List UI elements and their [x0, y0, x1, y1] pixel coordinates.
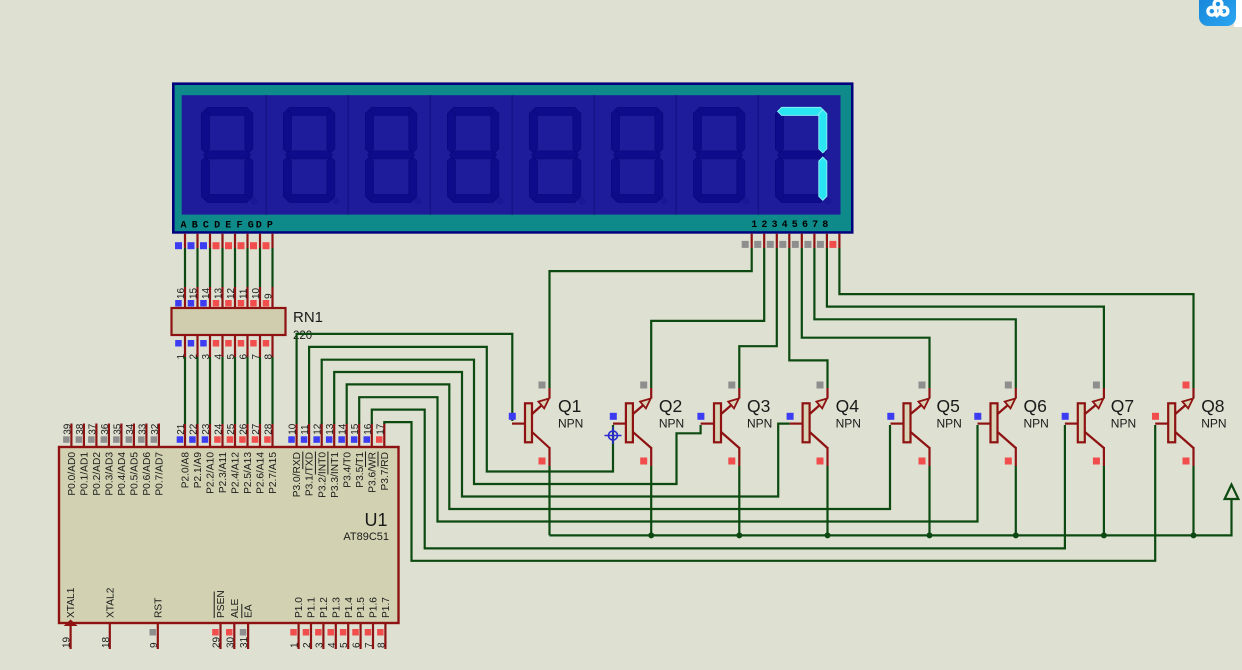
- svg-text:16: 16: [363, 423, 374, 435]
- wire P3.6 -> Q7 base: [372, 410, 1065, 549]
- logic-state squares on U1 top pins: [63, 436, 382, 443]
- svg-text:XTAL1: XTAL1: [66, 587, 77, 618]
- logic-state squares on Q4 pins: [787, 382, 824, 465]
- svg-text:NPN: NPN: [937, 417, 962, 431]
- svg-text:ALE: ALE: [230, 599, 241, 618]
- svg-text:P1.2: P1.2: [319, 597, 330, 618]
- svg-text:14: 14: [201, 287, 212, 299]
- svg-text:37: 37: [87, 423, 98, 435]
- display segment pins A-G,DP (stubs): [185, 234, 273, 248]
- svg-text:P3.2/INT0: P3.2/INT0: [317, 452, 328, 498]
- wire P3.3 -> Q4 base: [334, 372, 790, 497]
- svg-text:P2.2/A10: P2.2/A10: [206, 452, 217, 494]
- svg-text:16: 16: [176, 287, 187, 299]
- wire display digit pin 4 -> Q4 emitter: [789, 248, 827, 388]
- svg-text:9: 9: [264, 293, 275, 299]
- svg-text:P3.5/T1: P3.5/T1: [355, 452, 366, 488]
- svg-text:34: 34: [125, 423, 136, 435]
- svg-text:P2.5/A13: P2.5/A13: [243, 452, 254, 494]
- svg-text:P3.7/RD: P3.7/RD: [380, 452, 391, 491]
- microcontroller U1 body: [59, 447, 399, 623]
- svg-text:P2.1/A9: P2.1/A9: [193, 452, 204, 489]
- svg-text:P0.5/AD5: P0.5/AD5: [130, 452, 141, 496]
- svg-text:P2.0/A8: P2.0/A8: [181, 452, 192, 489]
- svg-text:12: 12: [313, 423, 324, 435]
- svg-text:23: 23: [201, 423, 212, 435]
- svg-text:Q1: Q1: [558, 396, 581, 416]
- wire collector bus (Q1..Q8 collectors): [550, 466, 1232, 535]
- display digit cell 7 (unlit figure-8): [693, 107, 749, 204]
- logic-state squares on Q1 pins: [509, 382, 546, 465]
- svg-text:8: 8: [376, 642, 387, 648]
- svg-text:17: 17: [375, 423, 386, 435]
- svg-text:27: 27: [251, 423, 262, 435]
- svg-text:5: 5: [339, 642, 350, 648]
- svg-text:P3.0/RXD: P3.0/RXD: [292, 452, 303, 497]
- svg-text:6: 6: [352, 642, 363, 648]
- svg-text:EA: EA: [244, 604, 255, 618]
- svg-text:P3.3/INT1: P3.3/INT1: [330, 452, 341, 498]
- wire P3.4 -> Q5 base: [347, 384, 890, 509]
- svg-text:P2.7/A15: P2.7/A15: [268, 452, 279, 494]
- svg-text:NPN: NPN: [558, 417, 583, 431]
- svg-text:10: 10: [251, 287, 262, 299]
- lit digit 7 (segments A B C) on cell 8: [778, 107, 827, 200]
- svg-text:29: 29: [212, 636, 223, 648]
- svg-text:NPN: NPN: [1111, 417, 1136, 431]
- svg-text:RN1: RN1: [293, 309, 323, 326]
- junction dots on collector bus: [648, 532, 1196, 538]
- svg-text:P1.3: P1.3: [331, 597, 342, 618]
- logic-state squares on RN1 bottom pins: [175, 340, 269, 347]
- svg-text:ABCDEFG: ABCDEFG: [181, 220, 259, 231]
- transistor Q2 (NPN): [613, 388, 651, 466]
- svg-text:2: 2: [302, 642, 313, 648]
- svg-text:P1.1: P1.1: [307, 597, 318, 618]
- svg-text:31: 31: [239, 636, 250, 648]
- U1 top pin name labels: [67, 452, 391, 498]
- svg-text:AT89C51: AT89C51: [343, 531, 389, 543]
- svg-text:18: 18: [101, 636, 112, 648]
- svg-text:NPN: NPN: [659, 417, 684, 431]
- svg-text:39: 39: [62, 423, 73, 435]
- origin crosshair marker: [605, 427, 622, 444]
- svg-text:28: 28: [264, 423, 275, 435]
- svg-text:U1: U1: [364, 510, 387, 530]
- RN1 bottom pin numbers 1..8: [176, 354, 275, 360]
- wire P3.2 -> Q3 base: [322, 360, 701, 484]
- svg-text:30: 30: [225, 636, 236, 648]
- svg-text:P0.2/AD2: P0.2/AD2: [92, 452, 103, 496]
- power symbol (up arrow): [1225, 485, 1239, 500]
- svg-text:Q8: Q8: [1201, 396, 1224, 416]
- svg-text:26: 26: [239, 423, 250, 435]
- svg-text:NPN: NPN: [1201, 417, 1226, 431]
- display digit cell 3 (unlit figure-8): [365, 107, 421, 204]
- transistor Q3 (NPN): [701, 388, 740, 466]
- logic-state squares on Q5 pins: [887, 382, 925, 465]
- svg-text:P3.4/T0: P3.4/T0: [342, 452, 353, 488]
- display digit pins 1-8 (stubs): [752, 234, 840, 248]
- svg-text:4: 4: [327, 642, 338, 648]
- svg-text:15: 15: [350, 423, 361, 435]
- wire display digit pin 1 -> Q1 emitter: [550, 248, 752, 388]
- svg-text:12345678: 12345678: [751, 220, 832, 231]
- svg-text:1: 1: [290, 642, 301, 648]
- transistor Q8 (NPN): [1155, 388, 1193, 466]
- svg-text:14: 14: [338, 423, 349, 435]
- svg-text:XTAL2: XTAL2: [105, 587, 116, 618]
- transistor Q5 (NPN): [891, 388, 930, 466]
- svg-text:PSEN: PSEN: [216, 590, 227, 618]
- logic-state squares on Q8 pins: [1152, 382, 1190, 465]
- U1 top pin numbers: [62, 423, 386, 435]
- logic-state squares on Q6 pins: [974, 382, 1012, 465]
- svg-text:11: 11: [300, 424, 311, 435]
- display digit cell 4 (unlit figure-8): [447, 107, 503, 204]
- svg-text:P1.6: P1.6: [369, 597, 380, 618]
- U1 top pin stubs (P0, P2, P3 ports): [71, 424, 384, 448]
- RN1 top pin numbers 16..9: [176, 287, 275, 299]
- wire P3.5 -> Q6 base: [359, 397, 977, 521]
- svg-text:35: 35: [112, 423, 123, 435]
- wire display digit pin 8 -> Q8 emitter: [839, 248, 1193, 388]
- svg-text:P1.4: P1.4: [344, 597, 355, 618]
- wire display digit pin 2 -> Q2 emitter: [651, 248, 764, 388]
- U1 bottom pin stubs: [71, 623, 386, 649]
- svg-text:24: 24: [214, 423, 225, 435]
- transistor Q7 (NPN): [1065, 388, 1104, 466]
- wire P3.7 -> Q8 base: [384, 422, 1155, 561]
- svg-text:Q7: Q7: [1111, 396, 1134, 416]
- svg-text:15: 15: [189, 287, 200, 299]
- display digit cell 2 (unlit figure-8): [283, 107, 339, 204]
- logic-state squares on Q2 pins: [610, 382, 647, 465]
- svg-text:10: 10: [288, 423, 299, 435]
- logic-state squares on RN1 top pins: [175, 300, 269, 307]
- wires RN1 pins 1..8 down to U1 P2.0..P2.7: [185, 357, 273, 424]
- logic-state squares on U1 bottom pins: [150, 629, 384, 636]
- svg-text:P1.7: P1.7: [381, 597, 392, 618]
- U1 bottom pin numbers: [62, 636, 388, 648]
- logic-state squares on Q7 pins: [1062, 382, 1100, 465]
- svg-text:Q3: Q3: [747, 396, 770, 416]
- wire display digit pin 6 -> Q6 emitter: [814, 248, 1015, 388]
- U1 bottom pin name labels: [66, 587, 392, 618]
- svg-text:P1.0: P1.0: [294, 597, 305, 618]
- display digit cell 6 (unlit figure-8): [611, 107, 667, 204]
- svg-text:Q5: Q5: [937, 396, 960, 416]
- svg-text:3: 3: [314, 642, 325, 648]
- svg-text:7: 7: [364, 642, 375, 648]
- svg-text:19: 19: [62, 636, 73, 648]
- svg-text:Q6: Q6: [1024, 396, 1047, 416]
- svg-text:P2.6/A14: P2.6/A14: [256, 452, 267, 494]
- svg-text:P3.1/TXD: P3.1/TXD: [305, 452, 316, 496]
- wire display digit pin 3 -> Q3 emitter: [739, 248, 777, 388]
- transistor Q4 (NPN): [790, 388, 828, 466]
- wire display digit pin 7 -> Q7 emitter: [827, 248, 1104, 388]
- svg-text:12: 12: [226, 287, 237, 299]
- svg-text:P1.5: P1.5: [356, 597, 367, 618]
- svg-text:P0.6/AD6: P0.6/AD6: [142, 452, 153, 496]
- svg-text:9: 9: [149, 642, 160, 648]
- RN1 bottom pins 1..8: [185, 335, 273, 357]
- svg-text:22: 22: [189, 423, 200, 435]
- svg-text:NPN: NPN: [747, 417, 772, 431]
- svg-text:P2.3/A11: P2.3/A11: [218, 452, 229, 493]
- svg-text:21: 21: [176, 423, 187, 435]
- svg-text:25: 25: [226, 423, 237, 435]
- wire P3.1 -> Q2 base: [309, 347, 613, 472]
- display digit cell 5 (unlit figure-8): [529, 107, 585, 204]
- logic-state squares on display digit pins: [742, 241, 837, 248]
- transistor Q1 (NPN): [512, 388, 550, 466]
- resistor network RN1 top pins 16..9: [185, 287, 273, 308]
- display digit cell 1 (unlit figure-8): [201, 107, 257, 204]
- svg-text:13: 13: [214, 287, 225, 299]
- svg-text:36: 36: [100, 423, 111, 435]
- svg-text:32: 32: [150, 423, 161, 435]
- logic-state squares on display segment pins: [175, 242, 270, 249]
- XTAL1 clock input arrow: [64, 620, 78, 627]
- display digit cell 8 (unlit figure-8): [775, 107, 831, 204]
- transistor Q6 (NPN): [978, 388, 1016, 466]
- svg-text:RST: RST: [153, 598, 164, 618]
- svg-text:Q2: Q2: [659, 396, 682, 416]
- svg-text:P0.1/AD1: P0.1/AD1: [80, 452, 91, 496]
- svg-text:13: 13: [325, 423, 336, 435]
- svg-text:P0.3/AD3: P0.3/AD3: [105, 452, 116, 496]
- svg-text:P0.0/AD0: P0.0/AD0: [67, 452, 78, 496]
- logic-state squares on Q3 pins: [697, 382, 735, 465]
- svg-text:38: 38: [75, 423, 86, 435]
- svg-text:NPN: NPN: [836, 417, 861, 431]
- 8-digit 7-segment display DS1: [172, 82, 854, 233]
- wires display segment pins A..DP down to RN1 pins 16..9: [185, 248, 273, 287]
- svg-text:NPN: NPN: [1024, 417, 1049, 431]
- svg-text:33: 33: [137, 423, 148, 435]
- wire P3.0 -> Q1 base: [297, 334, 513, 424]
- svg-text:P0.4/AD4: P0.4/AD4: [117, 452, 128, 496]
- svg-text:P2.4/A12: P2.4/A12: [231, 452, 242, 494]
- wire display digit pin 5 -> Q5 emitter: [802, 248, 930, 388]
- svg-text:DP: DP: [256, 220, 278, 231]
- svg-text:11: 11: [239, 288, 250, 299]
- resistor network RN1 body: [172, 308, 286, 335]
- svg-text:Q4: Q4: [836, 396, 860, 416]
- svg-text:P0.7/AD7: P0.7/AD7: [155, 452, 166, 496]
- svg-text:P3.6/WR: P3.6/WR: [367, 452, 378, 493]
- app icon overlay (top right): [1199, 0, 1242, 27]
